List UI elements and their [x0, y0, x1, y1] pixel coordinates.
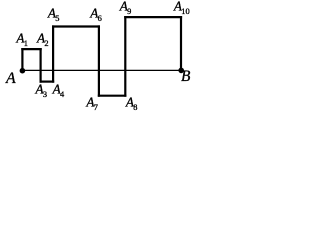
wire A4 to A5: [52, 27, 54, 82]
wire A10 to B: [180, 17, 182, 70]
wire A6 to A7: [98, 27, 100, 96]
node B dot: [178, 68, 184, 74]
svg-text:A: A: [5, 70, 16, 87]
wire A1 to A2: [22, 48, 40, 50]
wire A3 to A4: [41, 80, 54, 82]
wire A5 to A6: [53, 25, 99, 27]
wire A9 to A10: [125, 16, 181, 18]
node A dot: [20, 68, 26, 74]
wire A2 to A3: [39, 49, 41, 82]
wire A to A1: [21, 49, 23, 70]
wire A7 to A8: [99, 95, 125, 97]
line A-B (chord): [22, 69, 181, 71]
wire A8 to A9: [124, 17, 126, 96]
svg-text:B: B: [181, 68, 191, 85]
